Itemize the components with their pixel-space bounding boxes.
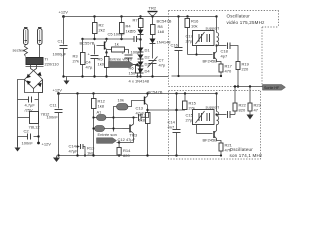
resistor R17	[219, 64, 233, 77]
resistor R8	[151, 24, 165, 39]
capacitor C5 100nF	[108, 32, 141, 43]
svg-text:1000µF: 1000µF	[53, 52, 67, 57]
svg-text:47p: 47p	[159, 63, 166, 68]
node +12V	[37, 135, 51, 146]
svg-text:support: support	[206, 26, 220, 31]
svg-text:C16: C16	[171, 43, 179, 48]
transformer TR	[26, 57, 44, 67]
svg-text:150: 150	[129, 71, 136, 76]
potentiometer P1 10k	[114, 98, 145, 132]
resistor R16	[185, 15, 199, 54]
svg-text:Oscillateur: Oscillateur	[230, 147, 254, 152]
resistor R15	[183, 92, 197, 110]
svg-text:BF245B: BF245B	[203, 59, 218, 64]
resistor R2	[93, 15, 106, 39]
transistor TR1 BC557	[80, 39, 107, 53]
resistor R19	[236, 62, 250, 88]
resistor R21	[219, 143, 233, 157]
potentiometer P2	[92, 110, 114, 121]
resistor R10	[92, 92, 106, 155]
svg-text:220: 220	[242, 67, 249, 72]
svg-text:100nF: 100nF	[47, 115, 59, 120]
crystal box top	[186, 26, 220, 56]
svg-text:C5: C5	[108, 32, 114, 37]
ground bus sound	[57, 154, 221, 156]
svg-text:4n7: 4n7	[168, 125, 175, 130]
inductor L1	[215, 15, 218, 46]
svg-text:D2: D2	[145, 55, 151, 60]
wire	[25, 80, 43, 93]
svg-text:27p: 27p	[186, 39, 193, 44]
connector Sortie HF	[263, 85, 286, 91]
svg-text:4 x 1N4148: 4 x 1N4148	[129, 79, 150, 84]
svg-text:Entrée son: Entrée son	[98, 132, 117, 137]
transistor TR5 BF245	[203, 46, 222, 65]
svg-text:BC547B: BC547B	[148, 90, 163, 95]
resistor R5	[98, 51, 110, 76]
svg-text:100nF: 100nF	[22, 141, 34, 146]
capacitor C10	[168, 92, 181, 155]
bridge rectifier D	[25, 71, 43, 89]
resistor R20	[248, 87, 262, 115]
svg-text:Oscillateur: Oscillateur	[227, 14, 251, 19]
svg-text:1k: 1k	[115, 42, 119, 47]
resistor R4a	[120, 15, 133, 39]
svg-text:1k0: 1k0	[98, 62, 105, 67]
svg-text:1k8: 1k8	[98, 104, 105, 109]
wire	[39, 45, 41, 58]
resistor R4 1k horizontal	[107, 42, 129, 54]
capacitor C 100nF	[18, 129, 39, 146]
oscillator box video (dashed)	[169, 11, 279, 87]
svg-text:Sortie HF: Sortie HF	[264, 86, 280, 90]
transistor TR2 BC547	[148, 6, 172, 25]
mains pin P2	[38, 28, 43, 45]
svg-text:BC547B: BC547B	[157, 19, 172, 24]
svg-text:BC557B: BC557B	[80, 41, 95, 46]
svg-text:support: support	[206, 105, 220, 110]
capacitor C4	[86, 45, 99, 77]
svg-text:secteur: secteur	[13, 48, 27, 53]
resistor R3	[73, 40, 86, 77]
svg-text:C11: C11	[50, 103, 58, 108]
svg-text:47: 47	[254, 108, 259, 113]
resistor R7 top of diode chain	[133, 15, 144, 27]
trimmer C7	[148, 57, 166, 77]
svg-text:2k2: 2k2	[99, 28, 106, 33]
svg-text:C12 47µF: C12 47µF	[118, 137, 136, 142]
ground	[64, 77, 70, 85]
wire top rail	[64, 16, 217, 18]
svg-text:220/110: 220/110	[45, 62, 60, 67]
node +12V rail top	[59, 10, 69, 18]
capacitor C18	[217, 43, 239, 62]
svg-text:D4: D4	[145, 69, 151, 74]
ground	[53, 156, 60, 163]
capacitor C13	[114, 106, 149, 122]
transistor TR4	[145, 90, 163, 113]
svg-text:+12V: +12V	[59, 10, 69, 15]
inductor L2	[215, 92, 218, 125]
svg-text:C1: C1	[58, 39, 64, 44]
svg-text:47µF: 47µF	[69, 149, 79, 154]
capacitor C1 1000uF	[53, 17, 68, 77]
svg-text:Entrée vidéo: Entrée vidéo	[110, 57, 133, 62]
svg-text:BF245B: BF245B	[203, 138, 218, 143]
svg-text:1N4148: 1N4148	[157, 40, 172, 45]
crystal box bottom	[186, 105, 220, 134]
resistor R14	[117, 143, 131, 159]
svg-text:820: 820	[239, 108, 246, 113]
resistor R22 sound coupling	[233, 85, 247, 114]
ground	[247, 115, 254, 120]
transistor TR6 BF245	[203, 125, 222, 144]
svg-text:78L12: 78L12	[29, 125, 41, 130]
capacitor C6 100uF	[122, 50, 143, 65]
wire audio into box	[148, 109, 186, 111]
regulator IC1 7812	[18, 112, 51, 130]
svg-text:1k8: 1k8	[139, 118, 146, 123]
wire	[31, 65, 34, 71]
mains pin P1	[24, 28, 29, 45]
node +12V sound	[53, 88, 63, 95]
svg-text:10k: 10k	[191, 24, 197, 29]
wire	[18, 80, 25, 147]
svg-text:D5: D5	[131, 29, 137, 34]
capacitor C14	[69, 92, 96, 156]
oscillator box sound (dashed)	[169, 91, 261, 160]
svg-text:1k8: 1k8	[158, 29, 165, 34]
connector Entree son	[97, 132, 117, 143]
wire	[34, 65, 37, 71]
svg-text:27k: 27k	[73, 59, 79, 64]
capacitor C smoothing	[18, 97, 39, 113]
label Oscillateur video	[227, 14, 266, 26]
ground bus video	[62, 75, 168, 77]
svg-text:470: 470	[225, 69, 232, 74]
wire	[39, 80, 43, 137]
wire bus inside top box	[172, 75, 222, 77]
wire output line	[235, 85, 263, 87]
capacitor C12	[117, 137, 136, 144]
resistor R13	[139, 113, 151, 156]
svg-text:R7: R7	[133, 18, 139, 23]
diode chain D1-D4	[138, 40, 151, 77]
svg-text:+12V: +12V	[53, 88, 63, 93]
svg-text:C2: C2	[24, 129, 30, 134]
diode D6 1N4148	[150, 39, 172, 59]
svg-text:4p7: 4p7	[221, 54, 228, 59]
svg-text:TR2: TR2	[149, 6, 157, 11]
svg-text:+12V: +12V	[42, 142, 52, 147]
wire	[33, 89, 35, 93]
diode D5	[131, 28, 144, 41]
svg-text:47µ: 47µ	[86, 65, 93, 70]
svg-text:D1: D1	[145, 48, 151, 53]
transistor TR3	[123, 118, 138, 143]
svg-text:470: 470	[225, 148, 232, 153]
wire bias line	[81, 38, 133, 40]
svg-text:100nF: 100nF	[114, 32, 126, 37]
fuse F1 zigzag	[24, 45, 28, 57]
wire sound rail	[59, 93, 217, 95]
svg-text:27p: 27p	[186, 118, 193, 123]
svg-text:10k: 10k	[118, 98, 124, 103]
svg-text:son 174,1 MHz: son 174,1 MHz	[230, 153, 263, 158]
capacitor C11	[47, 94, 63, 156]
svg-text:A1: A1	[97, 110, 103, 115]
capacitor C16	[171, 15, 183, 76]
potentiometer P3	[92, 126, 122, 132]
label Oscillateur son	[230, 147, 263, 158]
connector Entree video	[109, 57, 140, 78]
capacitor C20 sound osc coupling	[217, 111, 236, 118]
svg-text:vidéo 175,25MHz: vidéo 175,25MHz	[227, 20, 266, 25]
ground	[15, 137, 21, 152]
